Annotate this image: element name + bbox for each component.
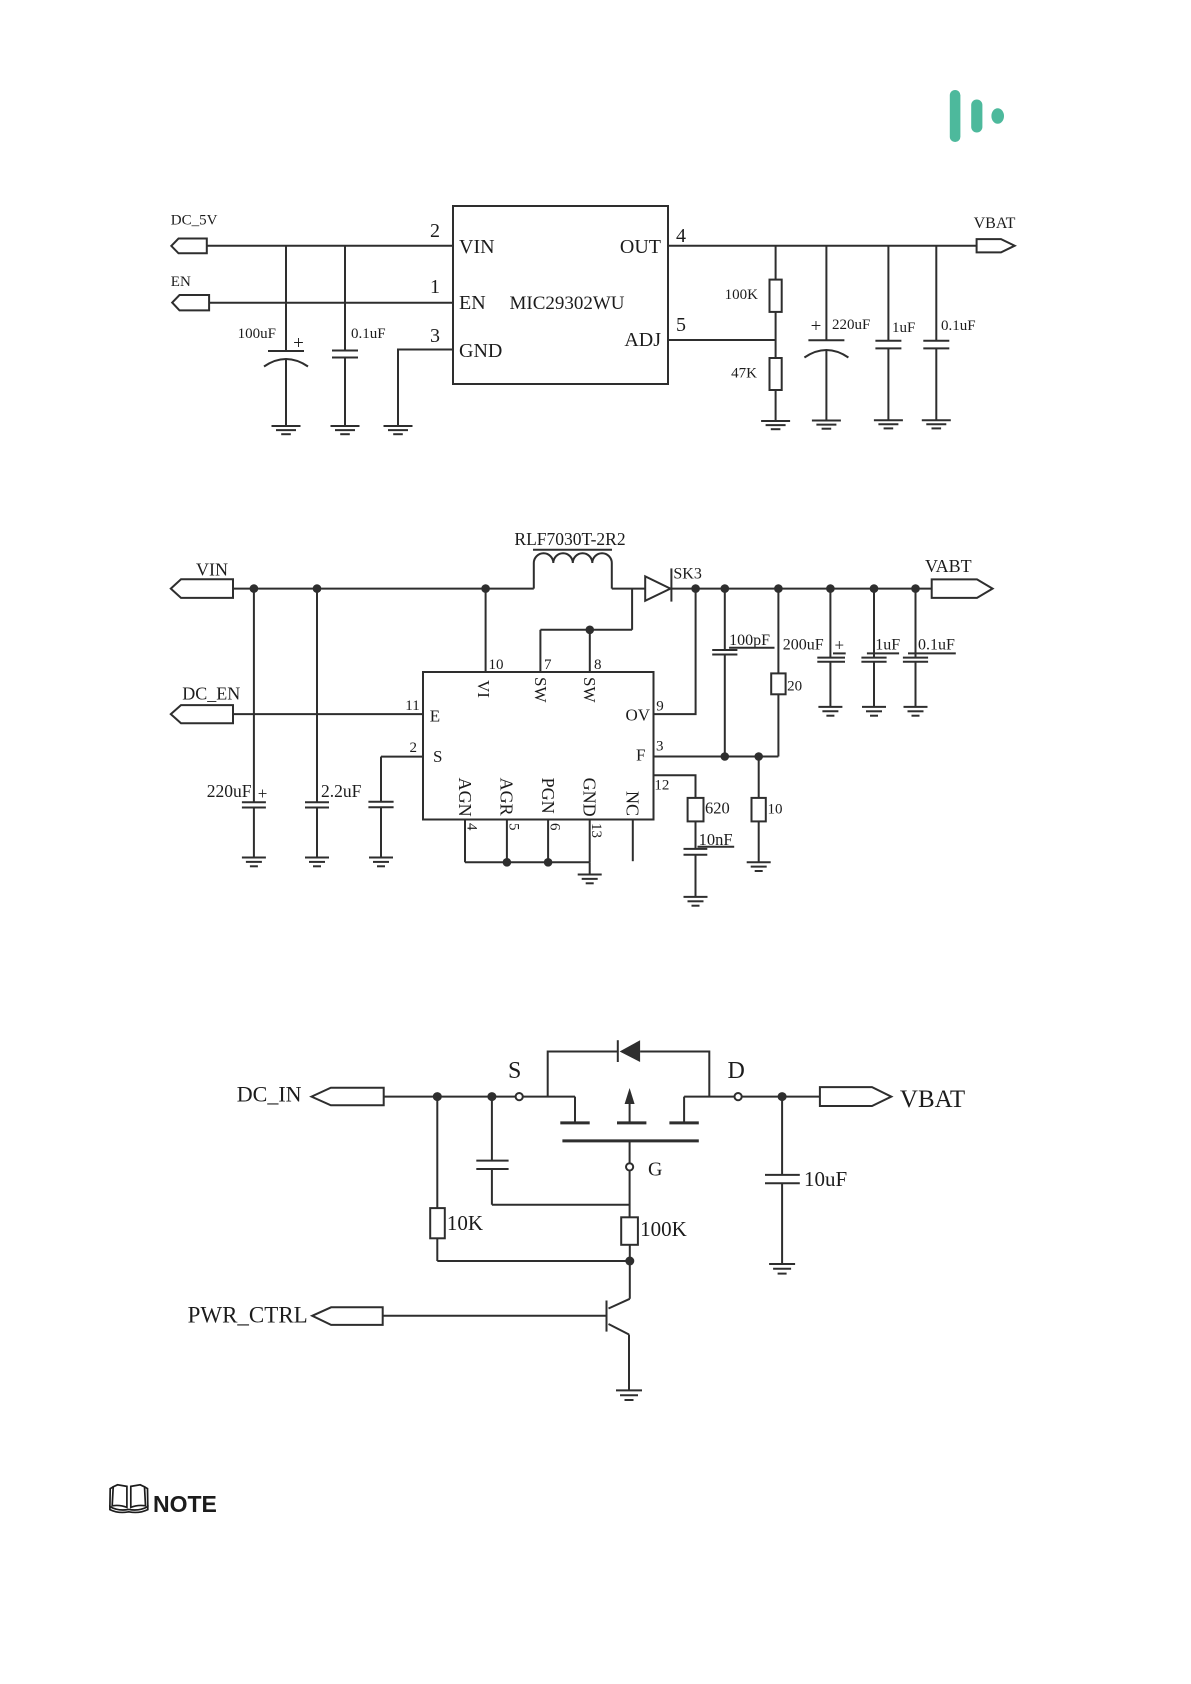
wire PWR_CTRL to base	[383, 1315, 607, 1317]
port DC_5V	[171, 213, 218, 254]
capacitor C 100uF polarized	[238, 246, 308, 426]
wire drain side	[684, 1097, 734, 1123]
svg-text:AGN: AGN	[455, 778, 475, 817]
port VBAT bottom	[820, 1086, 965, 1113]
junction dots bottom	[433, 1092, 787, 1265]
svg-text:DC_EN: DC_EN	[182, 684, 240, 704]
node D terminal circle	[735, 1093, 742, 1100]
svg-text:VBAT: VBAT	[974, 215, 1016, 232]
svg-text:12: 12	[654, 778, 669, 794]
svg-text:9: 9	[656, 698, 664, 714]
ground under 1uF	[874, 420, 903, 428]
op-amp U1 MIC29302WU body	[453, 206, 668, 384]
svg-text:VABT: VABT	[925, 556, 972, 576]
capacitor C 100pF	[712, 589, 774, 757]
svg-text:11: 11	[405, 698, 419, 714]
svg-text:E: E	[430, 707, 440, 726]
ground under Q2	[616, 1390, 642, 1400]
svg-text:GND: GND	[459, 340, 502, 362]
wire pin12	[654, 775, 696, 798]
wire F pin3	[654, 756, 779, 758]
wire gate down	[629, 1171, 631, 1218]
wire NC stub	[632, 820, 634, 862]
port PWR_CTRL	[188, 1303, 383, 1328]
wire inductor to diode	[612, 588, 645, 590]
ground under 0.1uF mid	[904, 707, 928, 716]
ground under 0.1uF out	[922, 420, 951, 428]
capacitor C 10uF	[765, 1097, 847, 1264]
capacitor C 10nF	[684, 830, 735, 897]
svg-text:F: F	[636, 746, 645, 765]
port DC_EN	[171, 684, 241, 724]
resistor R 47K	[731, 358, 782, 421]
mosfet body arrow	[625, 1088, 635, 1123]
resistor R 20	[771, 589, 802, 757]
svg-text:+: +	[258, 784, 268, 803]
ground under 10	[747, 862, 771, 871]
wire VIN rail	[233, 588, 534, 590]
ground under pin13	[578, 875, 602, 884]
capacitor C 2.2uF	[305, 589, 362, 858]
svg-text:100pF: 100pF	[729, 632, 770, 649]
svg-text:NOTE: NOTE	[153, 1491, 217, 1517]
svg-text:10K: 10K	[447, 1211, 483, 1235]
svg-text:10: 10	[768, 802, 783, 818]
svg-text:S: S	[508, 1058, 521, 1084]
svg-text:10: 10	[489, 657, 504, 673]
ground under 220uF mid	[242, 858, 266, 867]
svg-text:GND: GND	[580, 778, 600, 817]
svg-text:0.1uF: 0.1uF	[351, 326, 386, 342]
svg-text:20: 20	[787, 679, 802, 695]
node S terminal circle	[516, 1093, 523, 1100]
transistor Q2 npn	[607, 1299, 630, 1391]
wire S up over diode	[548, 1052, 710, 1097]
resistor R 100K	[725, 246, 782, 358]
ground under 10nF	[684, 897, 708, 906]
svg-text:1: 1	[430, 276, 440, 298]
svg-text:OUT: OUT	[620, 236, 661, 258]
resistor R 100K gate	[621, 1217, 687, 1299]
wire gate to cap	[492, 1204, 630, 1206]
capacitor C pin2	[368, 757, 393, 858]
svg-text:RLF7030T-2R2: RLF7030T-2R2	[514, 529, 625, 549]
resistor R 10K	[430, 1097, 483, 1261]
svg-text:8: 8	[594, 657, 602, 673]
svg-text:VIN: VIN	[459, 236, 495, 258]
ground under 2.2uF	[305, 858, 329, 867]
svg-text:NC: NC	[623, 791, 643, 816]
port VIN	[171, 560, 233, 598]
ground under pin2 cap	[369, 858, 393, 867]
svg-text:D: D	[728, 1058, 745, 1084]
wire DC_IN rail	[384, 1096, 516, 1098]
junction dots mid	[250, 584, 920, 866]
wire D to VBAT	[742, 1096, 820, 1098]
ground under 10uF	[769, 1264, 795, 1274]
resistor R 620	[688, 798, 730, 848]
port DC_IN	[237, 1082, 384, 1107]
ground under 200uF	[818, 707, 842, 716]
svg-text:DC_IN: DC_IN	[237, 1082, 302, 1107]
wire SW link	[540, 589, 632, 672]
capacitor C 1uF	[875, 246, 915, 420]
wire S to source	[523, 1097, 575, 1123]
capacitor C gate	[476, 1097, 508, 1205]
svg-text:220uF: 220uF	[832, 317, 870, 333]
svg-text:2: 2	[430, 220, 440, 242]
svg-text:2: 2	[410, 740, 418, 756]
svg-text:S: S	[433, 747, 442, 766]
svg-text:G: G	[648, 1159, 662, 1181]
svg-text:+: +	[811, 316, 822, 337]
svg-text:220uF: 220uF	[207, 781, 252, 801]
svg-text:47K: 47K	[731, 366, 757, 382]
svg-text:0.1uF: 0.1uF	[918, 637, 955, 654]
resistor R 10	[752, 757, 783, 863]
svg-text:7: 7	[544, 657, 552, 673]
svg-text:620: 620	[705, 799, 730, 818]
IC U2 body	[423, 672, 654, 820]
wire ADJ	[668, 339, 776, 341]
capacitor C 0.1uF	[332, 246, 386, 426]
ground under 100uF	[272, 426, 301, 434]
diode body D2	[618, 1040, 640, 1062]
svg-text:5: 5	[676, 314, 686, 336]
ground under 0.1uF	[331, 426, 360, 434]
wire GND pin3	[398, 350, 453, 426]
svg-text:100uF: 100uF	[238, 326, 276, 342]
wire 10K to base node	[437, 1260, 630, 1262]
svg-text:SW: SW	[531, 677, 550, 703]
svg-text:ADJ: ADJ	[624, 329, 661, 351]
node G terminal circle	[626, 1141, 662, 1181]
svg-text:SW: SW	[580, 677, 599, 703]
diode D1 SK3	[645, 566, 702, 602]
wire bottom pins bus	[465, 820, 590, 875]
svg-text:PGN: PGN	[538, 778, 558, 814]
port VABT	[925, 556, 993, 598]
company logo bar 2	[971, 100, 982, 133]
company logo dot	[991, 108, 1004, 124]
ground under 1uF mid	[862, 707, 886, 716]
svg-text:3: 3	[656, 739, 664, 755]
wire DC_5V to VIN	[207, 245, 453, 247]
svg-text:MIC29302WU: MIC29302WU	[509, 293, 624, 314]
capacitor C 200uF	[783, 589, 846, 707]
svg-text:SK3: SK3	[673, 566, 701, 583]
svg-text:3: 3	[430, 325, 440, 347]
svg-text:0.1uF: 0.1uF	[941, 318, 976, 334]
svg-text:EN: EN	[459, 292, 486, 314]
svg-text:100K: 100K	[725, 287, 759, 303]
mosfet gate plate	[562, 1139, 698, 1142]
svg-text:OV: OV	[625, 706, 650, 725]
ground under 47K	[761, 421, 790, 429]
svg-text:VIN: VIN	[196, 560, 228, 580]
capacitor C 220uF polarized	[804, 246, 870, 420]
port VBAT top	[974, 215, 1016, 252]
svg-text:200uF: 200uF	[783, 637, 824, 654]
port EN	[171, 274, 209, 310]
svg-text:AGR: AGR	[497, 778, 517, 816]
capacitor C 1uF mid	[861, 589, 900, 707]
svg-text:10uF: 10uF	[804, 1167, 847, 1191]
company logo bar 1	[950, 90, 961, 142]
wire VABT rail	[671, 588, 931, 590]
wire EN to pin1	[209, 302, 453, 304]
capacitor C 220uF mid	[207, 589, 268, 858]
ground pin3	[384, 426, 413, 434]
ground under 220uF	[812, 421, 841, 429]
svg-text:PWR_CTRL: PWR_CTRL	[188, 1303, 308, 1328]
svg-text:4: 4	[676, 225, 686, 247]
wire OV pin9	[654, 589, 696, 715]
transistor Q1 mosfet bars	[560, 1121, 699, 1124]
svg-text:VI: VI	[474, 680, 493, 698]
note book icon	[110, 1485, 148, 1513]
wire OUT to VBAT	[668, 245, 977, 247]
inductor L1 RLF7030T-2R2	[514, 529, 625, 589]
svg-text:+: +	[835, 636, 845, 655]
svg-text:1uF: 1uF	[875, 637, 900, 654]
svg-text:2.2uF: 2.2uF	[321, 781, 362, 801]
svg-text:100K: 100K	[640, 1217, 687, 1241]
svg-text:EN: EN	[171, 274, 191, 290]
wire S pin2	[381, 756, 423, 758]
wire pin10	[485, 589, 487, 672]
capacitor C 0.1uF out	[923, 246, 975, 420]
capacitor C 0.1uF mid	[903, 589, 956, 707]
svg-text:DC_5V: DC_5V	[171, 213, 218, 229]
wire E pin11	[233, 713, 423, 715]
svg-text:VBAT: VBAT	[900, 1086, 965, 1113]
svg-text:1uF: 1uF	[892, 320, 915, 336]
